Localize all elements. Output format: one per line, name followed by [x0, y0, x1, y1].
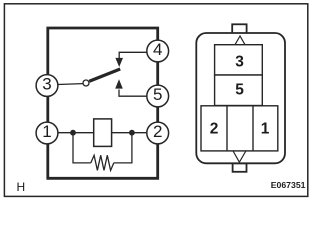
wire resistor parallel branch	[73, 133, 132, 163]
node junction left dot	[70, 130, 76, 136]
wire relay frame loop	[48, 28, 158, 178]
svg-text:4: 4	[153, 40, 162, 59]
pin cavity 5	[215, 75, 263, 106]
terminal 4	[147, 40, 169, 62]
svg-text:1: 1	[261, 120, 270, 137]
svg-text:5: 5	[153, 85, 162, 104]
terminal 3	[36, 75, 58, 97]
wire coil branch 1-2	[58, 132, 147, 134]
svg-text:2: 2	[153, 122, 162, 141]
svg-text:3: 3	[42, 75, 51, 94]
pin cavity bottom row	[201, 106, 278, 151]
wire switch common from terminal 3	[58, 83, 84, 86]
connector bottom tab	[233, 163, 247, 172]
svg-text:3: 3	[235, 53, 244, 70]
svg-text:E067351: E067351	[271, 180, 306, 190]
terminal 1	[36, 122, 58, 144]
contact arrow to terminal 4 (down)	[116, 52, 147, 66]
node junction right dot	[129, 130, 135, 136]
svg-text:5: 5	[235, 82, 244, 99]
pin cavity 3	[215, 45, 263, 75]
resistor R (zigzag)	[91, 155, 114, 170]
orientation mark top (up triangle)	[234, 36, 245, 46]
svg-text:H: H	[17, 180, 26, 194]
connector body	[196, 33, 285, 163]
terminal 5	[147, 85, 169, 107]
relay coil	[94, 119, 112, 146]
connector top tab	[232, 24, 246, 34]
switch pivot	[83, 80, 89, 86]
orientation mark bottom (down triangle)	[233, 151, 246, 162]
contact arrow to terminal 5 (up)	[116, 80, 147, 96]
svg-text:1: 1	[42, 122, 51, 141]
svg-text:2: 2	[210, 120, 219, 137]
switch arm	[89, 69, 120, 81]
terminal 2	[147, 122, 169, 144]
